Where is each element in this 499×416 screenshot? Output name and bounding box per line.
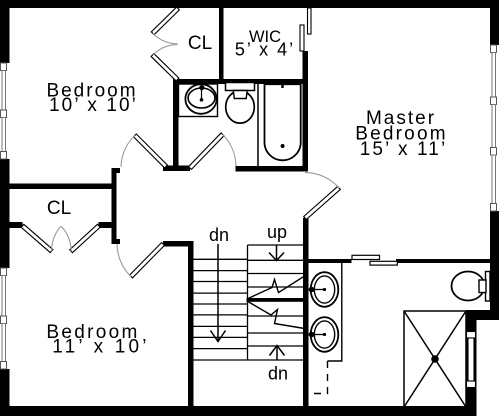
shower diagonal 2 — [404, 311, 466, 407]
toilet master seat box — [479, 280, 486, 293]
wall stairs west — [188, 241, 194, 407]
door closet1 swing arcs — [153, 34, 178, 44]
wall master bath north left — [308, 259, 352, 263]
shower drain dot — [431, 355, 439, 363]
wall bathroom north — [173, 79, 308, 84]
wall bedroom2 door stub — [163, 241, 194, 247]
stairs bottom line — [194, 359, 306, 361]
wall exterior top — [0, 0, 499, 8]
shelf ledge upper — [352, 255, 380, 259]
door master leaf — [304, 186, 341, 219]
window W3 right master — [491, 45, 497, 211]
shelf ledge lower — [370, 261, 397, 265]
stairs left flight treads — [194, 259, 248, 348]
tub alcove line — [257, 84, 259, 167]
sink hall bath outer — [185, 84, 216, 114]
wall exterior bottom — [0, 406, 477, 416]
svg-text:15’ x 11’: 15’ x 11’ — [360, 139, 448, 160]
door closet2 double leaf right — [70, 224, 100, 252]
stairs lower dn arrow — [270, 346, 285, 361]
wall hall west — [112, 168, 117, 244]
wall hinge stub bath doors — [163, 166, 190, 172]
svg-text:CL: CL — [47, 198, 71, 219]
sink hall bath inner — [188, 88, 215, 108]
door closet1 double leaf upper — [151, 7, 179, 35]
svg-text:11’ x 10’: 11’ x 10’ — [52, 337, 149, 358]
window W2 left lower — [1, 268, 7, 369]
svg-text:10’ x 10’: 10’ x 10’ — [49, 95, 138, 116]
door bedroom1 leaf — [133, 134, 167, 168]
stairs dn arrow — [211, 244, 226, 342]
door bathroom leaf — [189, 133, 224, 169]
toilet hall bath bowl — [226, 91, 255, 123]
sink master 2 faucet — [309, 334, 325, 336]
wall exterior right lower — [490, 211, 499, 320]
stairs break zigzag upper — [247, 276, 305, 299]
wall exterior left middle — [0, 159, 10, 268]
stairs right flight treads — [248, 260, 305, 346]
vanity master dashed knee — [309, 361, 328, 394]
wall closet2 south right stub — [99, 222, 117, 228]
door bedroom2 swing arc — [117, 244, 131, 277]
stairs break zigzag lower — [247, 301, 305, 329]
door bedroom1 swing arc — [121, 135, 135, 167]
door closet1 double leaf lower — [151, 54, 179, 81]
window W1 left upper — [1, 63, 7, 159]
shower stall — [404, 311, 466, 407]
sink master 1 faucet — [309, 289, 325, 291]
sink master 1 outer — [311, 272, 339, 307]
wall closet2 south left stub — [10, 222, 23, 228]
wall hall stair east — [303, 218, 309, 407]
sink hall bath dot — [200, 98, 204, 102]
wall hall west top foot — [112, 168, 121, 173]
svg-text:CL: CL — [188, 33, 212, 54]
stairs divider line — [247, 245, 249, 360]
toilet hall bath seat box — [233, 91, 247, 99]
svg-text:dn: dn — [209, 225, 229, 245]
toilet master tank — [486, 272, 491, 302]
wall bathroom south — [236, 166, 309, 172]
toilet hall bath tank — [226, 83, 255, 91]
svg-text:5’ x 4’: 5’ x 4’ — [235, 40, 295, 60]
sink master 2 outer — [311, 317, 339, 352]
wall exterior left upper — [0, 0, 10, 63]
svg-text:up: up — [267, 222, 287, 242]
wall CL-WIC divider — [219, 8, 224, 84]
vanity hall bath — [179, 84, 218, 117]
stairs up arrow — [269, 245, 284, 261]
sink master 2 inner — [314, 321, 334, 348]
wall exterior right upper — [490, 0, 499, 45]
bathtub faucet — [281, 81, 283, 88]
wall bedroom1 south — [10, 184, 113, 190]
wall hall west bottom foot — [112, 239, 121, 244]
door WIC pocket leaf outer — [308, 8, 312, 34]
svg-text:dn: dn — [268, 364, 288, 384]
door closet2 swing arcs — [52, 226, 61, 251]
wall jog bottom-right vertical — [466, 310, 477, 407]
door bathroom swing arc — [223, 134, 237, 166]
door master swing arc — [305, 173, 339, 188]
toilet master bowl — [452, 272, 485, 301]
wall exterior left lower — [0, 369, 10, 416]
sink master 1 inner — [314, 276, 334, 303]
wall bathroom west — [173, 79, 179, 171]
bathtub — [265, 84, 301, 160]
shower door glass — [467, 332, 476, 388]
shower diagonal 1 — [404, 311, 466, 407]
wall master bath north right — [396, 259, 490, 263]
door WIC pocket leaf inner — [300, 25, 304, 51]
door bedroom2 leaf — [130, 243, 165, 278]
door closet2 double leaf left — [21, 224, 53, 252]
wall jog bottom-right horizontal — [466, 310, 499, 320]
vanity master counter — [328, 263, 342, 361]
bathtub drain dot — [281, 144, 285, 148]
wall WIC east tub east — [303, 51, 309, 171]
stairs right flight top line — [248, 244, 306, 246]
sink hall bath faucet — [199, 85, 204, 90]
stairs break line thick — [247, 298, 309, 302]
